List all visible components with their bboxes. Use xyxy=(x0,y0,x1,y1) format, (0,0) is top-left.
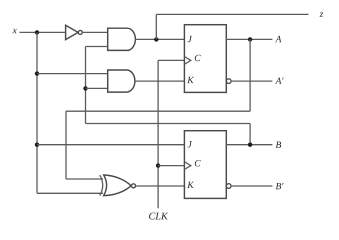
junction x to J2 xyxy=(35,143,39,147)
wire XNOR top input xyxy=(66,178,103,180)
pin label K1 xyxy=(187,77,194,83)
flip-flop U1 body xyxy=(184,25,226,93)
junction x to AND2 top input xyxy=(35,71,39,75)
node B output label xyxy=(276,142,282,148)
AND gate G2 xyxy=(108,28,136,50)
flip-flop U2 Qbar bubble xyxy=(226,184,231,189)
wire AND2 output to K1 xyxy=(135,80,185,82)
junction CLK to C2 xyxy=(156,163,160,167)
pin label J1 xyxy=(188,36,192,42)
node B-prime output label xyxy=(276,183,284,189)
wire Q2bar to B' xyxy=(231,185,273,187)
pin label K2 xyxy=(187,182,194,188)
wire C2 input xyxy=(158,165,184,167)
wire B feedback vertical right xyxy=(249,124,251,145)
wire inverter to AND1 xyxy=(82,31,108,33)
flip-flop U2 clock triangle xyxy=(184,162,190,170)
wire B feedback vertical left xyxy=(85,47,87,124)
wire x vertical bus xyxy=(36,32,38,193)
node A output label xyxy=(275,36,281,42)
node x input label xyxy=(12,29,16,33)
wire XNOR output to K2 xyxy=(136,185,185,187)
junction A feedback xyxy=(248,37,252,41)
flip-flop U1 clock triangle xyxy=(184,57,190,65)
wire z rail xyxy=(156,13,308,15)
flip-flop U2 body xyxy=(184,131,226,199)
XNOR gate G4 bubble xyxy=(132,184,136,188)
node z output label xyxy=(319,13,323,17)
wire Q1bar to A' xyxy=(231,80,273,82)
XNOR gate G4 leading arc xyxy=(100,175,103,195)
junction z takeoff xyxy=(154,37,158,41)
junction B feedback to AND2 xyxy=(83,86,87,90)
wire XNOR bottom input xyxy=(37,192,103,194)
wire C1 input xyxy=(158,59,184,61)
flip-flop U1 Qbar bubble xyxy=(226,79,231,84)
inverter G1 bubble xyxy=(78,30,82,34)
wire AND2 top input xyxy=(37,73,108,75)
label CLK xyxy=(149,213,168,220)
pin label C2 xyxy=(195,160,201,166)
pin label C1 xyxy=(195,55,201,61)
wire Q1 to A xyxy=(226,38,272,40)
wire AND2 bottom input xyxy=(86,87,109,89)
wire A feedback vertical right xyxy=(249,39,251,111)
wire J2 input xyxy=(37,144,184,146)
junction x input xyxy=(35,30,39,34)
node A-prime output label xyxy=(275,78,284,84)
wire Q2 to B xyxy=(226,144,272,146)
wire AND1 output to J1 xyxy=(135,38,184,40)
wire CLK vertical xyxy=(157,60,159,208)
inverter G1 triangle xyxy=(66,25,79,39)
wire AND1 bottom input xyxy=(86,46,108,48)
wire A feedback vertical left xyxy=(65,111,67,179)
AND gate G3 xyxy=(108,70,135,92)
wire B feedback horizontal xyxy=(86,123,251,125)
wire A feedback horizontal xyxy=(66,110,250,112)
wire z vertical xyxy=(155,14,157,39)
pin label J2 xyxy=(188,141,192,147)
wire x input horizontal xyxy=(20,31,66,33)
XNOR gate G4 body xyxy=(104,175,131,196)
junction B feedback xyxy=(248,143,252,147)
